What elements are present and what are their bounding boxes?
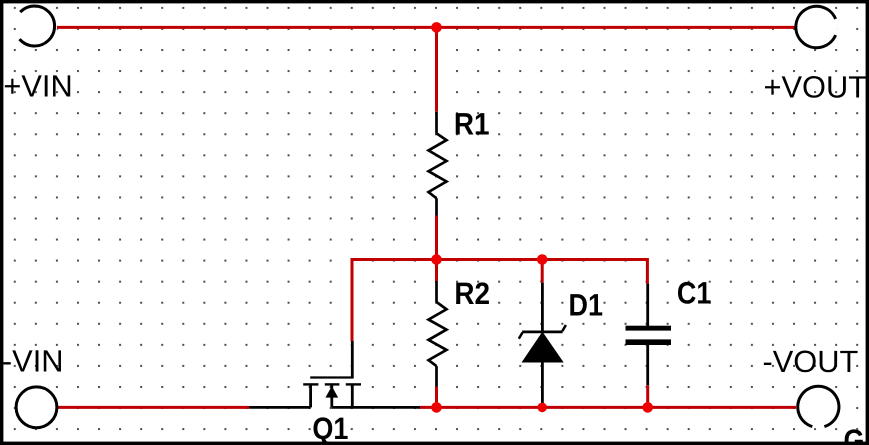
label G — [844, 423, 865, 445]
node junction rail R2 — [431, 402, 442, 413]
wire R2 bottom — [435, 387, 438, 408]
node junction rail D1 — [537, 403, 547, 413]
svg-text:C1: C1 — [677, 275, 711, 310]
wire R1 bottom — [435, 216, 438, 261]
svg-text:-VIN: -VIN — [2, 343, 64, 378]
resistor R2 — [429, 281, 447, 387]
resistor R1 — [429, 112, 447, 216]
label R1 — [454, 106, 490, 141]
wire mid bus — [352, 260, 647, 342]
node junction rail C1 — [642, 402, 653, 413]
wire top rail — [56, 26, 796, 29]
terminal -VOUT — [796, 386, 839, 428]
label C1 — [677, 275, 711, 310]
wire C1 bottom — [646, 385, 649, 407]
label Q1 — [312, 411, 348, 445]
terminal -VIN — [16, 387, 57, 428]
wire Q1 source lead (black) — [249, 406, 311, 409]
wire bottom right — [419, 406, 796, 409]
node junction top — [431, 22, 442, 33]
svg-text:D1: D1 — [569, 288, 603, 323]
svg-text:Q1: Q1 — [312, 411, 348, 445]
wire Q1 drain lead (black) — [332, 406, 420, 409]
transistor Q1 — [303, 341, 361, 407]
node junction bus R — [431, 254, 442, 265]
terminal +VOUT — [796, 6, 837, 48]
zener diode D1 — [519, 283, 566, 407]
wire D1 top — [541, 260, 544, 283]
terminal +VIN — [17, 6, 57, 48]
wire R2 top — [435, 260, 438, 282]
label D1 — [569, 288, 603, 323]
wire R1 top — [435, 27, 438, 111]
node junction bus D — [537, 254, 548, 265]
svg-text:+VIN: +VIN — [3, 69, 72, 104]
svg-text:+VOUT: +VOUT — [764, 70, 868, 105]
svg-text:R2: R2 — [454, 276, 490, 311]
label R2 — [454, 276, 490, 311]
svg-text:R1: R1 — [454, 106, 490, 141]
wire bottom left — [54, 406, 249, 409]
capacitor C1 — [626, 284, 672, 386]
svg-text:-VOUT: -VOUT — [763, 344, 859, 379]
